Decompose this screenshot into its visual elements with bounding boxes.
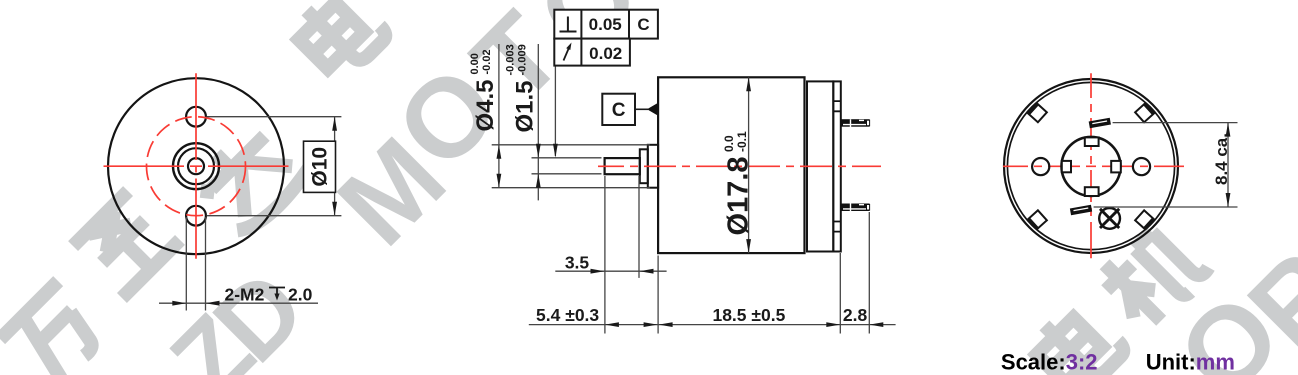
M2 right arrow (206, 301, 220, 306)
hub notch north (1085, 137, 1099, 146)
hub notch south (1085, 187, 1099, 196)
svg-text:8.4 ca.: 8.4 ca. (1212, 133, 1231, 185)
corner square NW (1028, 103, 1047, 122)
watermark char dian 2 (1026, 296, 1127, 375)
phi4.5 down arrow (497, 174, 502, 188)
svg-text:C: C (612, 100, 626, 121)
right view red vertical centerline (1090, 73, 1092, 258)
phi4.5 up arrow (497, 145, 502, 159)
8.4 down arrow (1226, 193, 1231, 207)
phi4.5 extension lines (492, 145, 650, 188)
phi4.5 dimension line (498, 44, 500, 188)
motor body rectangle (658, 77, 804, 253)
collar small rectangle (640, 149, 648, 183)
right view outer circle (1004, 79, 1178, 253)
svg-text:2.8: 2.8 (843, 305, 868, 325)
3.5 left extension line (604, 176, 606, 334)
bearing boss rectangle (648, 145, 658, 188)
depth symbol (269, 288, 285, 298)
left view red vertical centerline (195, 73, 197, 258)
corner square NE (1135, 103, 1154, 122)
svg-text:18.5 ±0.5: 18.5 ±0.5 (712, 305, 785, 325)
8.4 dimension line (1227, 123, 1229, 207)
corner square SE (1135, 210, 1154, 229)
watermark char wan (0, 280, 109, 375)
feature control frame row2 runout (554, 39, 630, 66)
left view bottom M2 hole (186, 206, 206, 226)
end cap left junction line (806, 81, 808, 251)
svg-text:-0.02: -0.02 (481, 49, 493, 74)
M2 holes left extension line (185, 217, 187, 311)
svg-text:C: C (637, 15, 649, 34)
svg-text:Ø10: Ø10 (309, 147, 332, 187)
phi10 boxed label (304, 141, 336, 192)
5.4 right arrow (644, 322, 658, 327)
3.5 right outside arrow (640, 269, 654, 274)
phi17.8 up arrow (746, 77, 751, 91)
right view inner rim circle (1007, 82, 1174, 249)
3.5 right extension line (638, 176, 640, 278)
terminal hole east (1133, 158, 1150, 175)
svg-text:Scale:3:2: Scale:3:2 (1001, 350, 1098, 375)
phi1.5 lower outside arrow (536, 174, 541, 188)
corner square SW (1028, 210, 1047, 229)
2.8 right outside arrow (869, 322, 883, 327)
middle view red centerline (598, 165, 881, 167)
phi10 up arrow (332, 117, 337, 131)
watermark char dian (288, 0, 389, 82)
datum triangle (647, 103, 657, 115)
phi1.5 upper outside arrow (536, 144, 541, 158)
svg-text:Unit:mm: Unit:mm (1146, 350, 1235, 375)
left view bearing boss circle (173, 143, 219, 189)
body face extension line (657, 256, 659, 334)
cap right extension line (839, 253, 841, 334)
hub notch west (1062, 161, 1071, 172)
screw head symbol (1099, 208, 1120, 229)
watermark char da (188, 114, 312, 238)
phi1.5 extension lines (532, 158, 602, 174)
svg-text:Ø4.5: Ø4.5 (472, 79, 499, 131)
svg-text:Ø1.5: Ø1.5 (512, 80, 539, 132)
M2 dimension line (159, 302, 318, 304)
phi17.8 dimension line (748, 77, 750, 253)
phi10 dimension line (334, 117, 336, 216)
phi1.5 dimension line (537, 44, 539, 200)
hub notch east (1111, 161, 1121, 173)
svg-text:0.00: 0.00 (469, 53, 481, 74)
svg-text:0.02: 0.02 (589, 44, 622, 63)
strip divider lines (833, 101, 841, 232)
3.5 dimension line (555, 270, 666, 272)
8.4 top extension line (1113, 122, 1238, 124)
phi10 bottom extension line (207, 215, 342, 217)
phi17.8 label (722, 131, 755, 236)
watermark char ji (1092, 214, 1211, 333)
svg-text:0.05: 0.05 (589, 15, 622, 34)
svg-text:5.4 ±0.3: 5.4 ±0.3 (536, 305, 599, 325)
left view top M2 hole (186, 107, 206, 127)
datum leader line (635, 108, 648, 110)
phi4.5 label (469, 49, 499, 131)
hub circle (1062, 137, 1121, 196)
upper terminal pin (841, 119, 870, 127)
phi17.8 down arrow (746, 239, 751, 253)
shaft rectangle (605, 158, 640, 174)
svg-text:Ø17.8: Ø17.8 (723, 157, 755, 236)
bottom dimension line (529, 324, 896, 326)
feature control frame row1 perpendicularity (554, 10, 658, 39)
M2 holes right extension line (205, 217, 207, 311)
M2 left arrow (172, 301, 186, 306)
runout leader line (554, 66, 556, 156)
svg-text:2-M2: 2-M2 (225, 285, 265, 305)
left view shaft circle (188, 158, 204, 174)
left view red horizontal centerline (104, 165, 289, 167)
svg-text:-0.009: -0.009 (517, 44, 529, 75)
runout leader arrow (553, 144, 558, 158)
phi10 down arrow (332, 202, 337, 216)
left view red bolt circle (147, 117, 246, 216)
8.4 bottom extension line (1094, 206, 1238, 208)
left view bearing circle (178, 148, 214, 184)
18.5 right arrow (826, 322, 840, 327)
watermark char zhi (72, 190, 180, 298)
3.5 left outside arrow (591, 269, 605, 274)
left view outer circle (108, 78, 284, 254)
end cap outer strip (833, 81, 841, 251)
svg-text:3.5: 3.5 (565, 252, 590, 272)
right view red horizontal centerline (1003, 165, 1184, 167)
svg-text:-0.003: -0.003 (505, 44, 517, 75)
phi10 top extension line (207, 116, 342, 118)
phi1.5 label (505, 44, 539, 132)
end cap rectangle (807, 81, 833, 251)
svg-text:-0.1: -0.1 (735, 131, 749, 152)
bottom slot (1070, 205, 1092, 215)
svg-text:2.0: 2.0 (288, 285, 313, 305)
8.4 up arrow (1226, 123, 1231, 137)
svg-text:0.0: 0.0 (722, 135, 736, 152)
terminal hole west (1032, 158, 1049, 175)
5.4 left arrow (605, 322, 619, 327)
pin end extension line (868, 212, 870, 334)
18.5 left arrow (659, 322, 673, 327)
top slot (1089, 118, 1111, 128)
scale and unit labels (1001, 350, 1235, 375)
datum C box (602, 94, 635, 125)
lower terminal pin (841, 204, 870, 212)
